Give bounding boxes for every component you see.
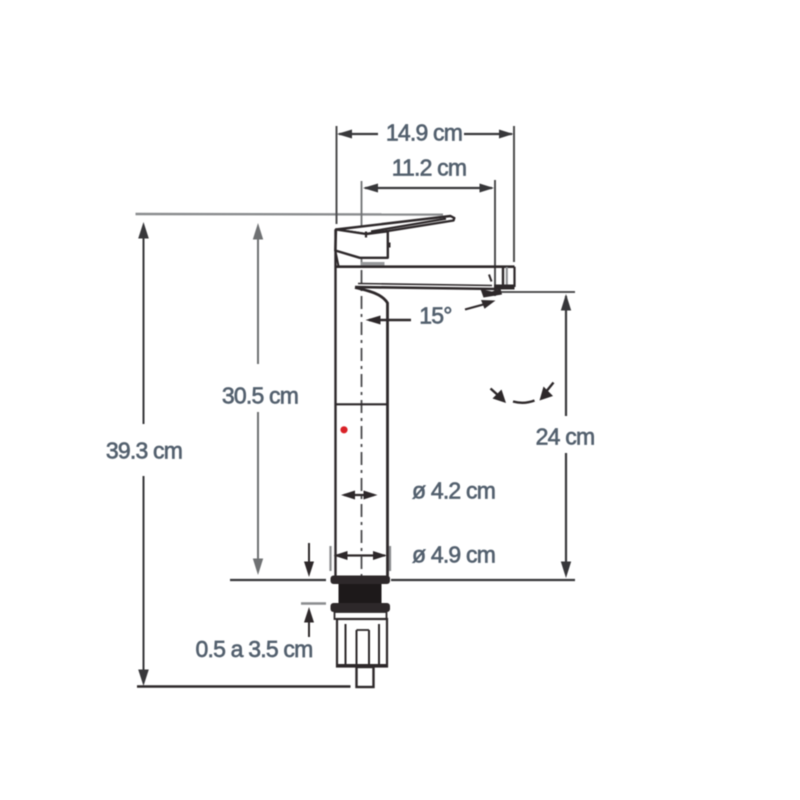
svg-text:11.2 cm: 11.2 cm (392, 155, 467, 181)
svg-text:30.5 cm: 30.5 cm (222, 383, 298, 409)
svg-text:24 cm: 24 cm (536, 424, 595, 450)
svg-text:ø 4.9 cm: ø 4.9 cm (412, 542, 495, 568)
svg-text:15°: 15° (419, 303, 451, 329)
svg-text:0.5 a 3.5 cm: 0.5 a 3.5 cm (196, 636, 313, 662)
svg-text:ø 4.2 cm: ø 4.2 cm (412, 478, 495, 504)
svg-text:14.9 cm: 14.9 cm (386, 120, 462, 146)
svg-text:39.3 cm: 39.3 cm (106, 438, 182, 464)
